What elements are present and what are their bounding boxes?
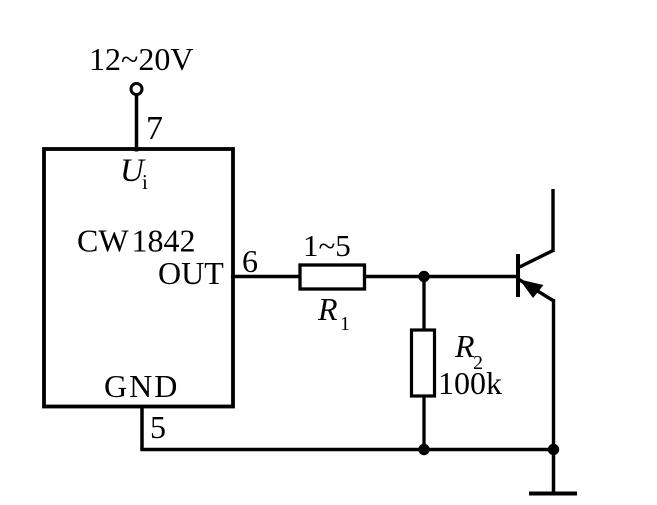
svg-text:OUT: OUT — [158, 255, 224, 291]
wire emitter down to node C — [552, 299, 555, 449]
resistor R2 — [412, 330, 435, 396]
wire bottom rail pin5 to emitter — [140, 448, 553, 452]
svg-text:R: R — [317, 291, 338, 327]
svg-text:6: 6 — [242, 243, 258, 279]
wire node A down to R2 — [422, 277, 425, 333]
wire supply terminal to pin 7 — [135, 95, 139, 152]
wire GND pin 5 stub down — [140, 405, 144, 450]
transistor Q1 PNP — [518, 251, 553, 301]
svg-text:7: 7 — [146, 110, 163, 147]
wire collector up — [551, 189, 554, 252]
wire R2 to node B — [422, 396, 425, 450]
label R1 — [317, 291, 350, 335]
svg-text:GND: GND — [104, 368, 179, 404]
svg-text:5: 5 — [150, 409, 166, 445]
node A junction dot — [418, 271, 429, 282]
wire node C down to ground — [552, 450, 556, 493]
ground symbol — [529, 492, 577, 496]
svg-text:1: 1 — [340, 313, 350, 335]
label Ui — [120, 153, 148, 194]
svg-text:12~20V: 12~20V — [89, 41, 193, 77]
node C junction dot — [548, 444, 559, 455]
terminal 12~20V input — [131, 84, 142, 95]
label R2 — [454, 328, 483, 374]
wire R1 to Q1 base through node A — [365, 275, 519, 278]
wire pin 6 to R1 — [231, 275, 300, 278]
svg-text:i: i — [142, 170, 148, 194]
resistor R1 — [300, 265, 365, 289]
node B junction dot — [418, 444, 429, 455]
svg-text:1~5: 1~5 — [303, 228, 351, 263]
IC U1 CW1842 body — [44, 149, 233, 407]
svg-text:R: R — [454, 328, 475, 364]
svg-text:CW1842: CW1842 — [77, 223, 196, 259]
svg-text:100k: 100k — [438, 365, 502, 401]
